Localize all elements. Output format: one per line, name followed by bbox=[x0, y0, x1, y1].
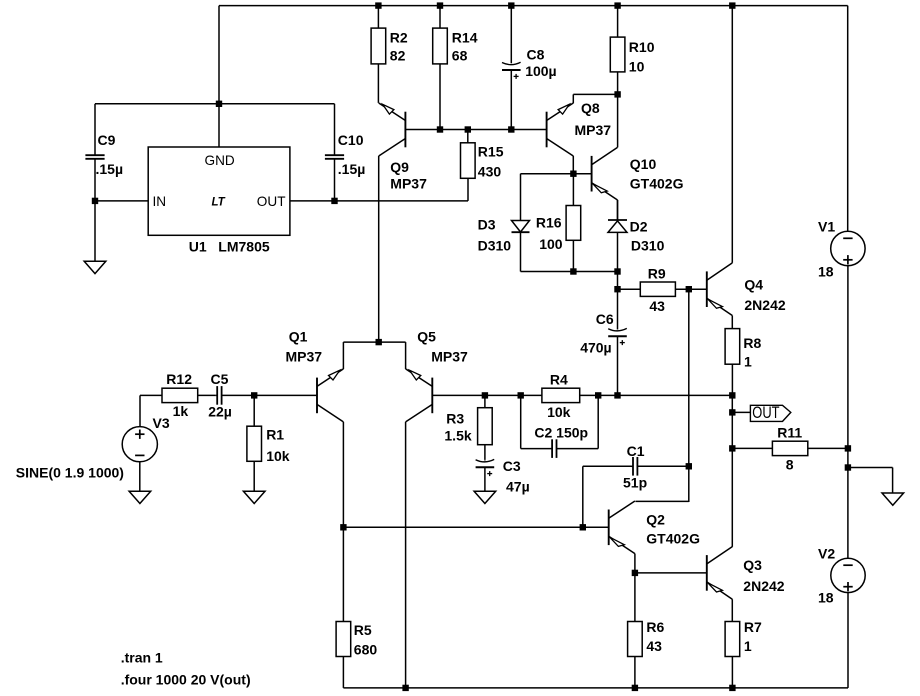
node junction C6/R9 bbox=[614, 286, 620, 292]
wire V2 bottom bbox=[847, 593, 849, 688]
transistor Q9 MP37 bbox=[379, 103, 427, 191]
ground below V3 bbox=[129, 491, 151, 503]
resistor R4 bbox=[542, 372, 618, 420]
wire Q2 collector column bbox=[688, 289, 690, 502]
op-amp U1 LM7805 regulator bbox=[148, 147, 290, 254]
svg-text:V1: V1 bbox=[818, 218, 835, 234]
svg-text:GND: GND bbox=[205, 153, 235, 168]
svg-text:C10: C10 bbox=[338, 132, 364, 148]
svg-text:22µ: 22µ bbox=[208, 404, 232, 420]
diode D3 D310 bbox=[478, 216, 530, 253]
svg-text:D310: D310 bbox=[478, 237, 512, 253]
svg-text:Q4: Q4 bbox=[744, 276, 763, 292]
svg-text:Q8: Q8 bbox=[581, 100, 600, 116]
svg-text:470µ: 470µ bbox=[580, 340, 611, 356]
resistor R7 bbox=[725, 619, 762, 688]
svg-text:LM7805: LM7805 bbox=[218, 238, 270, 254]
node junction R14/bus bbox=[437, 2, 443, 8]
svg-text:C9: C9 bbox=[98, 132, 116, 148]
node junction C9/IN bbox=[92, 198, 98, 204]
svg-text:SINE(0 1.9 1000): SINE(0 1.9 1000) bbox=[16, 465, 124, 481]
capacitor C9 bbox=[85, 104, 123, 201]
wire to right ground bbox=[848, 468, 893, 494]
svg-text:10k: 10k bbox=[266, 448, 290, 464]
node junction Q4 collector/bus bbox=[729, 2, 735, 8]
node junction R10/bus bbox=[614, 2, 620, 8]
node junction C2/row-right bbox=[595, 392, 601, 398]
wire Q5 base row bbox=[432, 394, 542, 396]
wire D3 top corner bbox=[520, 174, 522, 221]
node junction tail/Q9 bbox=[376, 339, 382, 345]
node junction R6/rail bbox=[632, 685, 638, 691]
wire top supply bus bbox=[219, 5, 848, 7]
node junction R9/Q4 base bbox=[686, 286, 692, 292]
node junction gnd/V1 wire bbox=[845, 464, 851, 470]
node junction C2/row-left bbox=[518, 392, 524, 398]
ground below C3 bbox=[474, 491, 496, 503]
svg-text:D310: D310 bbox=[631, 238, 665, 254]
svg-text:R2: R2 bbox=[390, 30, 408, 46]
svg-text:43: 43 bbox=[646, 638, 662, 654]
wire bottom rail bbox=[343, 687, 848, 689]
resistor R15 bbox=[461, 130, 504, 180]
resistor R11 bbox=[732, 425, 848, 473]
text .tran directive bbox=[121, 650, 163, 666]
wire Q5 emitter corner bbox=[379, 342, 406, 369]
svg-text:R3: R3 bbox=[446, 411, 464, 427]
node junction U1-GND/bus bbox=[216, 101, 222, 107]
voltage source V2 bbox=[818, 546, 865, 606]
diode D2 D310 bbox=[608, 219, 665, 254]
svg-text:R8: R8 bbox=[743, 335, 761, 351]
svg-text:R6: R6 bbox=[646, 619, 664, 635]
svg-text:.tran 1: .tran 1 bbox=[121, 650, 163, 666]
ground at right bbox=[882, 493, 904, 505]
svg-text:OUT: OUT bbox=[257, 194, 286, 209]
voltage source V3 bbox=[16, 415, 170, 481]
resistor R14 bbox=[433, 6, 478, 130]
node junction C8/base-row bbox=[508, 126, 514, 132]
wire D3 bottom lead bbox=[520, 232, 522, 271]
wire tail rail bbox=[343, 526, 608, 528]
wire D2 top lead bbox=[617, 200, 619, 220]
wire IN pin bbox=[95, 200, 148, 202]
svg-text:C5: C5 bbox=[211, 371, 229, 387]
svg-text:Q1: Q1 bbox=[289, 328, 308, 344]
node junction R5/tail bbox=[340, 524, 346, 530]
svg-text:MP37: MP37 bbox=[286, 349, 323, 365]
resistor R12 bbox=[140, 371, 215, 419]
svg-text:18: 18 bbox=[818, 264, 834, 280]
node junction Q8c/Q10 base bbox=[570, 171, 576, 177]
wire C2 left corner bbox=[521, 395, 551, 448]
node junction Q5c/rail bbox=[402, 685, 408, 691]
ground below R1 bbox=[243, 491, 265, 503]
wire Q9 collector lead bbox=[378, 156, 380, 342]
svg-text:R5: R5 bbox=[354, 622, 372, 638]
node junction R7/rail bbox=[729, 685, 735, 691]
resistor R1 bbox=[247, 395, 290, 491]
svg-text:MP37: MP37 bbox=[431, 349, 468, 365]
svg-text:8: 8 bbox=[786, 456, 794, 472]
svg-text:Q3: Q3 bbox=[743, 557, 762, 573]
wire OUT flag stub bbox=[732, 411, 750, 413]
svg-text:V2: V2 bbox=[818, 546, 835, 562]
svg-text:51p: 51p bbox=[623, 474, 647, 490]
wire C2 right corner bbox=[597, 395, 599, 448]
text .four directive bbox=[121, 672, 251, 688]
capacitor C2 bbox=[534, 425, 598, 458]
node junction Q2e/Q3 base bbox=[632, 570, 638, 576]
wire rail-R9 vertical bbox=[617, 272, 619, 290]
transistor Q5 MP37 bbox=[406, 328, 468, 422]
svg-text:10: 10 bbox=[629, 59, 645, 75]
svg-text:R14: R14 bbox=[452, 30, 478, 46]
svg-text:Q9: Q9 bbox=[390, 159, 409, 175]
svg-text:C1: C1 bbox=[627, 443, 645, 459]
svg-text:U1: U1 bbox=[189, 238, 207, 254]
svg-text:100µ: 100µ bbox=[525, 63, 556, 79]
node junction R11/V1 wire bbox=[845, 445, 851, 451]
node junction R15/base-row bbox=[465, 126, 471, 132]
wire row to R8 bbox=[618, 394, 733, 396]
transistor Q1 MP37 bbox=[286, 328, 344, 422]
capacitor C6 bbox=[580, 289, 627, 395]
wire R10-Q10 collector link bbox=[617, 94, 619, 147]
resistor R5 bbox=[336, 527, 377, 688]
svg-text:1.5k: 1.5k bbox=[444, 428, 471, 444]
wire out column bbox=[731, 395, 733, 546]
capacitor C10 bbox=[325, 104, 365, 201]
resistor R3 bbox=[444, 395, 492, 459]
resistor R16 bbox=[536, 174, 581, 272]
svg-text:Q2: Q2 bbox=[646, 512, 665, 528]
svg-text:C6: C6 bbox=[596, 311, 614, 327]
voltage source V1 bbox=[818, 218, 865, 279]
svg-text:C8: C8 bbox=[527, 47, 545, 63]
wire bus-V1 bbox=[847, 6, 849, 232]
wire V3 top corner bbox=[139, 395, 141, 426]
wire D2 bottom lead bbox=[617, 232, 619, 271]
svg-text:R9: R9 bbox=[648, 265, 666, 281]
wire C9 ground lead bbox=[94, 201, 96, 261]
svg-text:18: 18 bbox=[818, 589, 834, 605]
node junction D2/rail bbox=[614, 268, 620, 274]
svg-text:IN: IN bbox=[153, 194, 167, 209]
wire U1 GND vertical bbox=[218, 6, 220, 147]
resistor R10 bbox=[610, 6, 654, 95]
svg-text:C2 150p: C2 150p bbox=[534, 425, 588, 441]
svg-text:.four 1000 20 V(out): .four 1000 20 V(out) bbox=[121, 672, 251, 688]
node junction R8/row bbox=[729, 392, 735, 398]
svg-text:GT402G: GT402G bbox=[646, 531, 700, 547]
wire Q1 base row bbox=[254, 394, 317, 396]
svg-text:1: 1 bbox=[744, 638, 752, 654]
wire Q9-Q8 base row bbox=[405, 129, 546, 131]
node junction C1/tail bbox=[580, 524, 586, 530]
svg-text:C3: C3 bbox=[503, 458, 521, 474]
transistor Q2 GT402G bbox=[609, 501, 700, 573]
capacitor C3 bbox=[476, 458, 530, 494]
svg-text:D2: D2 bbox=[630, 219, 648, 235]
svg-text:MP37: MP37 bbox=[390, 175, 427, 191]
svg-text:82: 82 bbox=[390, 47, 406, 63]
node junction R11/column bbox=[729, 445, 735, 451]
resistor R2 bbox=[371, 6, 408, 103]
node junction C10/OUT bbox=[331, 198, 337, 204]
svg-text:LT: LT bbox=[212, 197, 226, 209]
resistor R8 bbox=[725, 329, 761, 396]
svg-text:680: 680 bbox=[354, 641, 378, 657]
svg-text:R16: R16 bbox=[536, 215, 562, 231]
node junction C5/R1/Q1 bbox=[251, 392, 257, 398]
node junction R2/bus bbox=[375, 2, 381, 8]
node junction OUT flag bbox=[729, 409, 735, 415]
svg-text:MP37: MP37 bbox=[575, 122, 612, 138]
capacitor C8 bbox=[502, 6, 557, 130]
wire Q10 base row bbox=[521, 173, 592, 175]
transistor Q3 2N242 bbox=[707, 547, 785, 622]
wire C1 left corner bbox=[583, 466, 631, 527]
svg-text:Q10: Q10 bbox=[630, 156, 657, 172]
resistor R9 bbox=[618, 265, 707, 314]
svg-text:10k: 10k bbox=[547, 404, 571, 420]
wire C9-C10 link bbox=[95, 103, 335, 105]
node junction Q8/R10/Q10 bbox=[614, 91, 620, 97]
transistor Q8 MP37 bbox=[547, 100, 612, 156]
transistor Q4 2N242 bbox=[707, 6, 786, 329]
wire Q8 collector lead bbox=[572, 156, 574, 174]
wire Q8 emitter step bbox=[573, 94, 617, 103]
svg-text:R10: R10 bbox=[629, 39, 655, 55]
svg-text:68: 68 bbox=[452, 47, 468, 63]
node junction C1/column bbox=[686, 463, 692, 469]
node junction R3/row bbox=[482, 392, 488, 398]
svg-text:GT402G: GT402G bbox=[630, 176, 684, 192]
svg-text:R1: R1 bbox=[266, 426, 284, 442]
svg-text:D3: D3 bbox=[478, 216, 496, 232]
node junction C8/bus bbox=[508, 2, 514, 8]
svg-text:1: 1 bbox=[744, 354, 752, 370]
svg-text:R15: R15 bbox=[478, 143, 504, 159]
node junction R14/base-row bbox=[437, 126, 443, 132]
ground below C9 bbox=[84, 261, 106, 273]
transistor Q10 GT402G bbox=[592, 147, 684, 220]
net flag OUT bbox=[750, 404, 790, 422]
svg-text:R11: R11 bbox=[777, 425, 802, 441]
wire OUT pin row bbox=[290, 200, 468, 202]
svg-text:Q5: Q5 bbox=[417, 328, 436, 344]
svg-text:2N242: 2N242 bbox=[744, 297, 785, 313]
resistor R6 bbox=[628, 573, 665, 688]
svg-text:430: 430 bbox=[478, 163, 502, 179]
node junction R16/rail bbox=[570, 268, 576, 274]
wire V1-V2 vertical bbox=[847, 266, 849, 559]
svg-text:2N242: 2N242 bbox=[743, 578, 784, 594]
capacitor C1 bbox=[623, 443, 689, 491]
wire Q2 collector link bbox=[635, 500, 688, 502]
svg-text:V3: V3 bbox=[153, 415, 170, 431]
svg-text:.15µ: .15µ bbox=[338, 161, 366, 177]
svg-text:R12: R12 bbox=[166, 371, 192, 387]
capacitor C5 bbox=[208, 371, 254, 419]
wire R15 bottom corner bbox=[467, 178, 469, 201]
node junction C6/row bbox=[614, 392, 620, 398]
svg-text:100: 100 bbox=[539, 236, 563, 252]
wire Q1 collector lead bbox=[342, 422, 344, 527]
svg-text:.15µ: .15µ bbox=[96, 161, 124, 177]
svg-text:43: 43 bbox=[649, 298, 665, 314]
svg-text:R4: R4 bbox=[550, 372, 568, 388]
svg-text:R7: R7 bbox=[744, 619, 762, 635]
svg-text:OUT: OUT bbox=[752, 404, 779, 422]
wire Q1 emitter corner bbox=[343, 342, 378, 369]
wire diode bottom rail bbox=[521, 271, 618, 273]
wire V3 ground lead bbox=[139, 462, 141, 491]
svg-text:1k: 1k bbox=[173, 403, 189, 419]
wire Q3 base row bbox=[635, 572, 707, 574]
svg-text:47µ: 47µ bbox=[506, 478, 530, 494]
wire Q5 collector lead bbox=[405, 422, 407, 688]
